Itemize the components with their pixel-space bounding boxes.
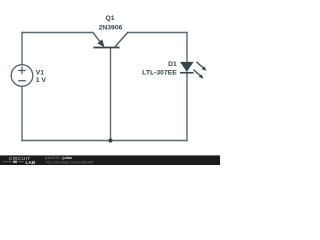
LED emission arrow 1	[196, 62, 203, 68]
LED emission arrow 2	[193, 70, 200, 76]
voltage source V1	[11, 65, 33, 87]
junction dot node	[108, 138, 112, 142]
transistor Q1 (PNP 2N3906)	[93, 33, 128, 48]
collector diagonal	[114, 33, 127, 48]
wire right vertical lower	[186, 73, 188, 141]
svg-text:jul42013 / julian: jul42013 / julian	[45, 156, 73, 160]
watermark CircuitLab logo	[3, 156, 36, 166]
wire top-left horizontal	[22, 32, 93, 34]
emitter diagonal	[93, 33, 101, 44]
wire right vertical upper	[186, 33, 188, 63]
svg-text:1 V: 1 V	[36, 77, 47, 84]
watermark band	[0, 155, 220, 165]
base bar	[94, 47, 120, 49]
svg-text:http://circuitlab.com/c/56b489: http://circuitlab.com/c/56b489	[46, 160, 94, 164]
svg-text:LTL-307EE: LTL-307EE	[142, 69, 177, 76]
wire left vertical upper	[21, 33, 23, 65]
svg-text:LAB: LAB	[26, 160, 36, 165]
svg-text:D1: D1	[168, 61, 177, 68]
wire bottom horizontal	[22, 140, 187, 142]
svg-text:V1: V1	[36, 69, 45, 76]
svg-text:Q1: Q1	[105, 15, 114, 22]
LED triangle	[180, 62, 194, 72]
LED cathode bar	[180, 72, 194, 74]
wire base stem of Q1	[110, 48, 112, 141]
svg-text:2N3906: 2N3906	[99, 24, 123, 31]
wire top-right horizontal	[128, 32, 187, 34]
watermark credit line	[45, 156, 94, 164]
wire left vertical lower	[21, 86, 23, 140]
emitter arrow	[97, 39, 104, 47]
LED D1	[180, 62, 207, 79]
